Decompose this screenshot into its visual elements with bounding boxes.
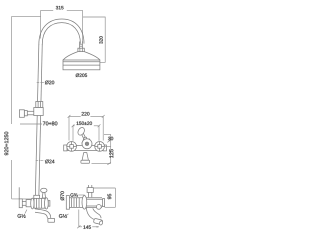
dim 145 <box>77 210 99 229</box>
wall flange <box>19 110 24 118</box>
wall line bottom-left <box>18 187 20 199</box>
diverter outlet bell <box>81 153 90 164</box>
shower head nut <box>78 48 84 51</box>
dim 315 horizontal <box>41 6 83 43</box>
bottom-right spout <box>86 205 103 226</box>
label G1/2 right <box>59 214 69 218</box>
gooseneck arc <box>39 19 84 45</box>
label G1/2 left <box>18 210 27 218</box>
label 70-80 <box>20 122 57 126</box>
union nut on riser <box>36 102 43 108</box>
label D24 leader <box>36 160 55 164</box>
shower head rim <box>63 60 100 70</box>
dim 220 <box>68 112 105 140</box>
supply step fitting <box>24 111 27 116</box>
diverter knob side view <box>41 188 47 198</box>
left cross handle <box>67 142 77 152</box>
label D70 rotated <box>60 191 64 200</box>
dim 320 vertical <box>83 17 105 62</box>
label G3/4 <box>70 193 84 196</box>
shower head stem <box>80 42 83 49</box>
dim 150+-20 <box>72 122 101 141</box>
mixer right cap <box>103 145 106 151</box>
spout side view <box>35 209 55 222</box>
wall elbow block <box>34 108 43 116</box>
dim 95 <box>93 188 115 207</box>
pipe nut above valve <box>34 195 40 198</box>
label D205 <box>76 73 87 77</box>
riser pipe <box>35 44 42 199</box>
diverter lever <box>77 126 90 140</box>
diverter knob circle <box>82 139 92 149</box>
bottom-right nipple <box>87 185 93 197</box>
valve body side view <box>19 198 50 209</box>
dim 30 <box>104 134 113 163</box>
shower head bell <box>63 52 100 60</box>
diverter cone <box>82 137 88 143</box>
dim 125 <box>92 149 114 165</box>
wall supply tube <box>25 111 34 115</box>
mixer left cap <box>64 145 67 151</box>
bottom-right body <box>66 196 104 210</box>
dim 920-1250 vertical line <box>4 17 40 199</box>
right cross handle <box>95 142 105 152</box>
label D20 leader <box>37 81 55 85</box>
mixer body tube <box>64 145 107 150</box>
